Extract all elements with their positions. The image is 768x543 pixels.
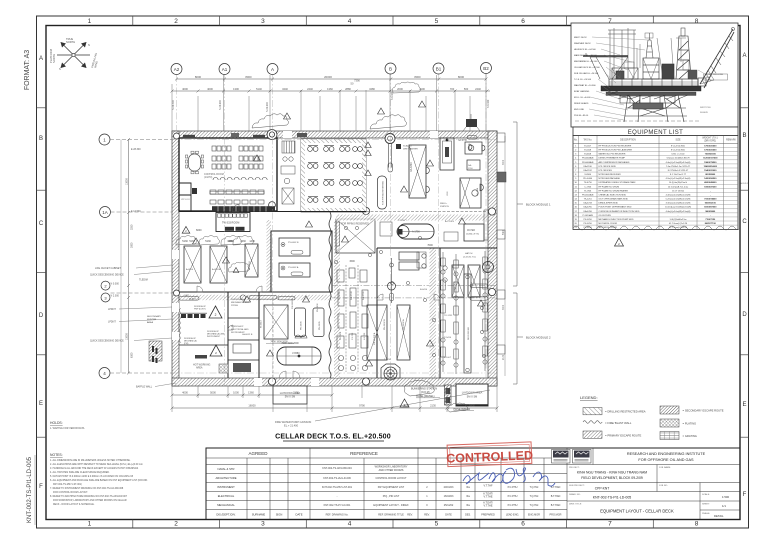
svg-text:KNT-002-TS-IA2-LD-006: KNT-002-TS-IA2-LD-006 [323, 477, 351, 480]
svg-text:8: 8 [695, 521, 699, 528]
svg-text:POUR POINT DEPRESSANT SKID: POUR POINT DEPRESSANT SKID [599, 206, 632, 209]
svg-text:PK-6-860: PK-6-860 [583, 178, 593, 180]
svg-text:4000: 4000 [207, 87, 213, 91]
svg-text:WATER INJ. PIG RECEIVER: WATER INJ. PIG RECEIVER [599, 153, 626, 156]
svg-text:NITROGEN RECEIVER: NITROGEN RECEIVER [599, 174, 622, 176]
revision rows middle [424, 485, 561, 517]
laydown area protrusion bottom [273, 386, 307, 404]
svg-text:TEMP. DRILLING: TEMP. DRILLING [706, 74, 723, 76]
right small dim line [504, 136, 506, 376]
vip loo dark cabinet [192, 188, 197, 194]
misc valve circles along alleys [334, 226, 485, 357]
svg-text:71000/74500: 71000/74500 [704, 198, 717, 201]
big x-rect W-6613 [264, 305, 288, 339]
svg-text:41.7.2mm(L)7x1.2E: 41.7.2mm(L)7x1.2E [669, 227, 688, 229]
svg-text:5m(L)x2.5m(W)x3.85mH: 5m(L)x2.5m(W)x3.85mH [667, 158, 690, 160]
svg-text:A: A [742, 53, 746, 59]
sea level dashes [575, 120, 700, 122]
svg-text:3: 3 [261, 521, 265, 528]
svg-text:7000: 7000 [427, 244, 433, 247]
svg-text:15400/214000: 15400/214000 [704, 165, 718, 168]
grid bubble A1 [219, 64, 230, 75]
svg-text:CORROSION INHIBITOR INJECTION: CORROSION INHIBITOR INJECTION SKID [599, 211, 640, 213]
svg-text:ELECTRICAL AND: ELECTRICAL AND [231, 328, 249, 331]
mid-left equipment A-6611B [210, 246, 227, 283]
svg-text:DES.: DES. [465, 514, 471, 517]
svg-text:FIRE WATER PUMP CAISSON: FIRE WATER PUMP CAISSON [275, 420, 311, 424]
horizontal centerlines right section [332, 284, 497, 286]
svg-text:13000: 13000 [126, 333, 129, 340]
scale drum washer [396, 144, 401, 149]
svg-text:2: 2 [174, 521, 178, 528]
svg-text:6300: 6300 [131, 352, 134, 358]
svg-text:MCC/MODL ROOM: MCC/MODL ROOM [599, 223, 618, 225]
svg-text:C-1766: C-1766 [352, 332, 354, 340]
workbench dark dash row [181, 314, 206, 318]
svg-text:4.2m(L)x2.9m(W)x2.3m(H): 4.2m(L)x2.9m(W)x2.3m(H) [666, 178, 691, 180]
svg-text:C: C [39, 221, 44, 227]
svg-text:WATER: WATER [467, 229, 475, 232]
svg-text:BLOCK MODULE 2: BLOCK MODULE 2 [526, 336, 551, 340]
svg-text:LAYDOWN AREA: LAYDOWN AREA [462, 391, 483, 395]
svg-text:N: N [88, 43, 90, 47]
svg-text:IFa: IFa [466, 495, 470, 498]
door arcs along walls [197, 205, 440, 379]
cloud scallop along table bottom [573, 226, 740, 230]
svg-text:500: 500 [464, 87, 469, 91]
svg-text:F: F [743, 492, 747, 498]
corridor locker dark band [212, 206, 275, 211]
revision cloud above plan right [370, 115, 407, 129]
svg-text:CHEMICAL INJECTION SKID: CHEMICAL INJECTION SKID [599, 193, 627, 196]
big triangle 2 lower [210, 345, 222, 356]
grid bubble 4 [99, 368, 110, 379]
svg-text:N 28.400: N 28.400 [172, 100, 175, 110]
svg-text:PRO.MGR: PRO.MGR [550, 514, 562, 517]
svg-text:PK-6501A/B: PK-6501A/B [582, 193, 594, 196]
svg-text:DA-: DA- [468, 164, 472, 167]
grid bubble B2 [481, 63, 492, 74]
svg-text:MECHANICAL AND: MECHANICAL AND [231, 301, 250, 304]
svg-text:PIQ., PID LIST: PIQ., PID LIST [383, 495, 400, 498]
svg-text:A-1790: A-1790 [412, 231, 420, 234]
legend fire blast wall [583, 421, 602, 424]
svg-text:MUD LINE: MUD LINE [574, 109, 585, 111]
mid-left PK-6664 x-box [245, 244, 258, 277]
jacket legs below deck [624, 95, 687, 122]
svg-text:HP FLARE KO DRUM HEATER: HP FLARE KO DRUM HEATER [599, 189, 629, 192]
svg-text:AGREED: AGREED [248, 451, 268, 456]
svg-text:15400/21000: 15400/21000 [704, 169, 717, 172]
top dim numbers [182, 79, 481, 91]
svg-text:5: 5 [435, 18, 439, 25]
deck outer wall top [172, 131, 497, 138]
svg-text:112000/117500: 112000/117500 [703, 158, 718, 160]
svg-text:E-1007: E-1007 [584, 146, 592, 148]
reference column content [322, 466, 413, 517]
svg-text:3000: 3000 [503, 159, 505, 165]
heater boxes [399, 252, 419, 260]
svg-text:WALKWAY EL.+16.800: WALKWAY EL.+16.800 [574, 84, 596, 87]
svg-text:14200/90500: 14200/90500 [704, 177, 717, 180]
svg-text:= PLATING: = PLATING [683, 422, 697, 426]
grid bubble B [385, 63, 396, 74]
legend secondary escape route [660, 406, 679, 414]
svg-text:MECHANICAL AND: MECHANICAL AND [207, 333, 225, 336]
mid-left equipment A-6614 [184, 246, 201, 283]
grid B column circle with riser pipe [385, 134, 395, 144]
svg-text:8. REFER TO ARCHITECTURE DRAWI: 8. REFER TO ARCHITECTURE DRAWING NO.KNT-… [50, 495, 128, 498]
svg-text:FOR PIPING RESERVED: FOR PIPING RESERVED [341, 223, 369, 226]
compass rose [57, 43, 90, 68]
svg-text:E: E [742, 402, 746, 408]
svg-text:8000: 8000 [245, 75, 252, 79]
svg-text:SECONDARY: SECONDARY [147, 315, 161, 318]
svg-text:5. DATUM POINT IS 0.000mm AND: 5. DATUM POINT IS 0.000mm AND E 0.000mm … [50, 475, 134, 478]
svg-text:Y-1700 ?: Y-1700 ? [398, 220, 407, 222]
wall door openings [172, 131, 438, 386]
svg-text:1300: 1300 [233, 87, 239, 91]
svg-text:FOR CONTROL ROOM LAYOUT.: FOR CONTROL ROOM LAYOUT. [53, 491, 88, 494]
svg-text:QUICK DESCENDING DEVICE: QUICK DESCENDING DEVICE [90, 340, 124, 343]
control room meeting table [189, 154, 201, 171]
svg-text:ELECTRICAL: ELECTRICAL [218, 494, 235, 498]
rotated elevation labels near top extension lines [172, 91, 490, 112]
svg-text:P-5410: P-5410 [444, 337, 452, 339]
svg-text:PREPARED: PREPARED [481, 514, 495, 517]
svg-text:(14270): (14270) [204, 176, 212, 179]
svg-text:A1: A1 [222, 67, 228, 72]
jack-up rig approach note [655, 47, 658, 55]
dotted grid block [219, 364, 228, 373]
svg-text:N 26.600: N 26.600 [266, 102, 269, 112]
svg-text:B-6410: B-6410 [420, 289, 428, 291]
svg-text:A-6614: A-6614 [186, 268, 194, 271]
bottom dimension lines [172, 386, 497, 412]
svg-text:SHEET:: SHEET: [702, 504, 710, 506]
svg-text:AIR COMPRESSOR PACKAGES: AIR COMPRESSOR PACKAGES [599, 161, 631, 164]
svg-text:DA-6765: DA-6765 [584, 206, 593, 209]
svg-text:B: B [742, 133, 746, 139]
svg-text:6. ALL EQUIPMENT AND PACKAGE S: 6. ALL EQUIPMENT AND PACKAGE SIZE ARE BA… [50, 479, 148, 482]
svg-text:PK-6604A/B: PK-6604A/B [582, 161, 594, 164]
svg-text:T.O.S. EL.+20.500: T.O.S. EL.+20.500 [574, 79, 592, 81]
svg-text:VIP LOO: VIP LOO [181, 199, 190, 201]
svg-text:DA-3512: DA-3512 [584, 169, 593, 172]
svg-text:700: 700 [450, 87, 455, 91]
elevation leader labels left [574, 37, 601, 117]
right side brackets [513, 122, 523, 286]
svg-text:DRW. TITLE:: DRW. TITLE: [569, 504, 582, 506]
svg-text:17500/21500: 17500/21500 [704, 150, 717, 152]
svg-text:3440: 3440 [282, 87, 288, 91]
svg-text:B: B [39, 136, 43, 142]
svg-text:2880: 2880 [345, 87, 351, 91]
DA-1760 box [467, 160, 480, 170]
svg-text:P-5410A/B: P-5410A/B [583, 214, 594, 217]
svg-text:4.4m(L)x2.9m(W)x3.2m(H): 4.4m(L)x2.9m(W)x3.2m(H) [666, 162, 691, 164]
svg-text:10 2.0m(L)B.Tx1.2 (L): 10 2.0m(L)B.Tx1.2 (L) [668, 186, 689, 188]
svg-text:HOLDS:: HOLDS: [50, 421, 63, 425]
svg-text:REFERENCE: REFERENCE [350, 451, 378, 456]
svg-text:5000: 5000 [210, 391, 216, 395]
svg-text:IFa: IFa [466, 486, 470, 489]
svg-text:7. REFER TO INSTRUMENT DRAWING: 7. REFER TO INSTRUMENT DRAWING NO.KNT-00… [50, 487, 124, 490]
vertical escape hatch band [334, 221, 340, 379]
svg-text:TAG No.: TAG No. [583, 139, 592, 142]
small derrick / flare left [646, 33, 653, 58]
small stairs right of wall [497, 133, 506, 354]
svg-text:10.2m(L)x2.5m(W)x0.5m(H): 10.2m(L)x2.5m(W)x0.5m(H) [665, 207, 691, 209]
left section row labels [215, 467, 302, 517]
cloud around 2000-4100 dims [392, 82, 420, 93]
svg-text:= SECONDARY ESCAPE ROUTE: = SECONDARY ESCAPE ROUTE [683, 409, 724, 413]
svg-text:P.C.PHU: P.C.PHU [508, 495, 518, 498]
svg-text:HP PRODUCTION PIG RECEIVER: HP PRODUCTION PIG RECEIVER [599, 146, 632, 148]
firewater pump x-box B [397, 305, 410, 360]
svg-text:N 2.000: N 2.000 [111, 295, 120, 298]
horizontal wall y292 left part [179, 291, 332, 293]
elevation extra clutter [609, 33, 714, 84]
svg-text:B.T.HAN: B.T.HAN [551, 486, 561, 489]
controlled stamp [446, 442, 534, 467]
svg-text:= DRILLING RESTRICTED AREA: = DRILLING RESTRICTED AREA [605, 410, 646, 414]
svg-text:TK-1251: TK-1251 [584, 199, 593, 201]
legend plating [660, 419, 679, 427]
svg-text:SCALED: SCALED [403, 145, 412, 148]
skid box top with dark dot [440, 138, 454, 170]
svg-text:1: 1 [88, 18, 92, 25]
row letters right [742, 53, 747, 498]
svg-text:DA-3510: DA-3510 [584, 165, 593, 168]
svg-text:1:500: 1:500 [722, 495, 729, 499]
grid bubble A2 [171, 64, 182, 75]
svg-text:A: A [39, 56, 43, 62]
svg-text:D: D [39, 313, 44, 319]
svg-text:HELIDECK EL.+44.500: HELIDECK EL.+44.500 [574, 49, 597, 51]
elevation small right labels [700, 107, 711, 114]
svg-text:13000: 13000 [126, 178, 129, 185]
left dim vertical lines [128, 140, 130, 374]
grid band column ticks bottom [133, 520, 654, 529]
pump D attachments on DA-6790 [426, 167, 429, 174]
big triangle 2 upper [209, 306, 222, 318]
extra small skid rects right-mid area [336, 210, 488, 268]
svg-text:MEZZ. DECK: MEZZ. DECK [574, 37, 587, 39]
svg-text:B.T.HAN: B.T.HAN [551, 504, 561, 507]
svg-text:P.C.PHU: P.C.PHU [508, 486, 518, 489]
svg-text:A: A [271, 67, 274, 72]
svg-text:KNT-002-TS-PI1-LD-005: KNT-002-TS-PI1-LD-005 [593, 496, 632, 500]
svg-text:DA-6743: DA-6743 [584, 202, 593, 205]
svg-text:TK-6750: TK-6750 [584, 182, 593, 184]
svg-text:JOB NO:: JOB NO: [659, 485, 668, 487]
svg-text:N 0.000: N 0.000 [111, 283, 120, 286]
svg-text:BAFFLE WALL: BAFFLE WALL [136, 386, 153, 389]
svg-text:8000: 8000 [195, 75, 202, 79]
svg-text:8"x1.2m/0.8mD: 8"x1.2m/0.8mD [671, 146, 686, 148]
svg-text:41.7.2mm(L)7x1.2E: 41.7.2mm(L)7x1.2E [669, 223, 688, 225]
svg-text:6: 6 [521, 521, 525, 528]
svg-text:KNT-002-TS-AK9-DW-004: KNT-002-TS-AK9-DW-004 [322, 467, 352, 470]
svg-text:B1: B1 [436, 67, 442, 72]
svg-text:C-1766: C-1766 [584, 186, 592, 188]
svg-text:NORTH: NORTH [66, 40, 75, 44]
vertical equipment chains right section [441, 251, 487, 374]
svg-text:GRIT: GRIT [184, 295, 190, 297]
svg-text:(2.4mX2.7m): (2.4mX2.7m) [463, 257, 476, 259]
svg-text:4000: 4000 [182, 391, 188, 395]
temp drilling rig box [704, 74, 728, 80]
svg-text:(PM): (PM) [184, 343, 189, 345]
svg-text:AREA: AREA [147, 321, 153, 324]
svg-text:HOSE-(DIESEL): HOSE-(DIESEL) [416, 395, 435, 398]
blue signatures [463, 468, 555, 486]
svg-text:B2: B2 [483, 66, 489, 71]
equipment labels scatter [184, 220, 476, 361]
svg-text:HATCH: HATCH [465, 252, 473, 255]
svg-text:9800/9900: 9800/9900 [705, 211, 716, 213]
svg-text:5140: 5140 [256, 87, 262, 91]
svg-text:C: C [742, 219, 747, 225]
svg-text:E-0008: E-0008 [584, 154, 592, 156]
svg-text:DESCRIPTION: DESCRIPTION [620, 140, 636, 142]
grid band row ticks left/right [37, 108, 749, 437]
svg-text:16/04/03: 16/04/03 [444, 495, 454, 498]
svg-text:= GRATING: = GRATING [683, 434, 697, 438]
svg-text:REV.: REV. [407, 514, 413, 517]
svg-text:B: B [389, 67, 392, 72]
svg-text:BLAST: BLAST [189, 298, 197, 301]
company section lines [567, 448, 740, 520]
capsule frame PN-6605 [313, 308, 324, 337]
control room walls [179, 138, 277, 211]
svg-text:PK-6605A/B: PK-6605A/B [582, 157, 594, 160]
horizontal pipe capsules to right wall [470, 284, 488, 288]
svg-text:No.: No. [574, 140, 578, 142]
svg-text:NORTH: NORTH [52, 54, 56, 63]
vertical wall x440 [439, 248, 441, 378]
svg-text:KNT-002-TS-PY-LD-001: KNT-002-TS-PY-LD-001 [324, 504, 351, 507]
svg-text:16000: 16000 [248, 404, 256, 408]
svg-text:SIGN: SIGN [276, 513, 283, 517]
svg-text:D: D [742, 312, 747, 318]
vertical wall x377 [376, 248, 378, 378]
svg-text:7400 1900 2000: 7400 1900 2000 [281, 342, 299, 345]
control room console desk rows [212, 146, 263, 169]
top dimension line row1 [172, 90, 490, 92]
svg-text:MUSTER: MUSTER [147, 319, 157, 321]
revision triangle below table [615, 238, 624, 246]
svg-text:8"x1.2m/0.8mD: 8"x1.2m/0.8mD [671, 150, 686, 152]
svg-text:1430: 1430 [240, 240, 246, 243]
svg-text:8.1 11x2.5m/1.7T: 8.1 11x2.5m/1.7T [670, 174, 687, 176]
svg-text:3250: 3250 [131, 224, 134, 230]
svg-text:2130: 2130 [503, 354, 505, 360]
svg-text:6.8m x 1.5mD: 6.8m x 1.5mD [672, 154, 685, 156]
svg-text:A-1700 E: A-1700 E [445, 220, 455, 223]
vertical escape hatch band center-left [267, 220, 272, 292]
svg-text:SA-6936: SA-6936 [453, 281, 456, 290]
svg-text:TLEDIM: TLEDIM [139, 279, 148, 282]
svg-text:HOSE-WATER: HOSE-WATER [454, 408, 471, 411]
svg-text:DIS./DEPT./DIV.: DIS./DEPT./DIV. [216, 513, 236, 517]
svg-text:KNT-002-TS-MS7-LST-001: KNT-002-TS-MS7-LST-001 [322, 486, 353, 489]
center room PK-6663 boxes [279, 238, 310, 256]
svg-text:HOLD 1: HOLD 1 [741, 183, 750, 185]
svg-text:NOTES:: NOTES: [50, 453, 63, 457]
svg-text:PMP (DUST): PMP (DUST) [194, 309, 206, 311]
control room chairs arc row [213, 177, 267, 180]
svg-text:T.Q.HAI: T.Q.HAI [530, 486, 539, 489]
svg-text:A2: A2 [174, 67, 180, 72]
svg-text:DIESEL FIREWATER PUMP: DIESEL FIREWATER PUMP [599, 157, 626, 160]
svg-text:6: 6 [521, 18, 525, 25]
grid bubble 3 [101, 293, 110, 302]
svg-text:4.4m(L)x2.0m(W)x1.0m(H): 4.4m(L)x2.0m(W)x1.0m(H) [666, 194, 691, 196]
svg-text:CELLAR DECK T.O.S. EL.+20.500: CELLAR DECK T.O.S. EL.+20.500 [275, 433, 391, 441]
svg-text:2440: 2440 [307, 87, 313, 91]
control room vip room partition [179, 183, 191, 211]
svg-text:17500/21500: 17500/21500 [704, 146, 717, 148]
svg-text:2. ALL ELEVATIONS ARE WITH RES: 2. ALL ELEVATIONS ARE WITH RESPECT TO ME… [50, 463, 143, 466]
svg-text:CELLAR DECK EL.+28.500: CELLAR DECK EL.+28.500 [574, 66, 601, 69]
svg-text:1A: 1A [102, 210, 108, 215]
dark equipment above top wall right [466, 119, 477, 127]
left edge triangles near wellbay [365, 142, 371, 176]
svg-text:51000/57000: 51000/57000 [704, 207, 717, 209]
svg-text:REF. DRAWING TITLE: REF. DRAWING TITLE [378, 514, 404, 517]
equipment DA-6790 x-box [409, 145, 426, 198]
svg-text:T-6706: T-6706 [384, 359, 392, 361]
svg-text:V.T.THE: V.T.THE [483, 496, 492, 499]
table header row [573, 143, 738, 145]
pipe capsule row above rooms [179, 295, 295, 300]
svg-text:REF. DRAWING No.: REF. DRAWING No. [326, 514, 349, 517]
horizontal escape hatch band left [179, 295, 332, 300]
svg-text:BLOCK MODULE 1: BLOCK MODULE 1 [526, 203, 551, 207]
legend primary escape route [583, 431, 602, 438]
svg-text:KINH NGU TRANG - KINH NGU TRAN: KINH NGU TRANG - KINH NGU TRANG NAM [577, 471, 647, 475]
svg-text:1. WAITING FOR VEDOR DATA: 1. WAITING FOR VEDOR DATA [50, 427, 85, 430]
svg-text:40200/49000: 40200/49000 [704, 181, 717, 184]
svg-text:PN-6602 A: PN-6602 A [402, 319, 405, 330]
svg-text:8.2 P500x0.5 5225.4T: 8.2 P500x0.5 5225.4T [668, 170, 689, 172]
column numbers top [88, 18, 699, 25]
svg-text:1: 1 [88, 521, 92, 528]
control room desk row lower [210, 190, 264, 204]
svg-text:9790: 9790 [359, 404, 365, 408]
svg-text:LEGEND:: LEGEND: [580, 395, 598, 400]
svg-text:MEZZANINE EL.+31.500: MEZZANINE EL.+31.500 [574, 60, 598, 63]
grid bubble B1 [433, 63, 444, 74]
svg-text:5: 5 [435, 521, 439, 528]
svg-text:7150/7150: 7150/7150 [705, 219, 716, 221]
svg-text:E-1008: E-1008 [584, 150, 592, 152]
svg-text:1/1: 1/1 [722, 504, 726, 508]
svg-text:LP3 OFFICES: LP3 OFFICES [599, 170, 613, 172]
svg-text:LPDNT: LPDNT [108, 321, 116, 324]
ladder strip between control room and wellbay [281, 141, 295, 204]
tall narrow rect FW piping [464, 274, 471, 373]
top dim ticks [171, 90, 489, 93]
svg-text:DETAIL: DETAIL [714, 514, 724, 518]
svg-text:EQUIPMENT LAYOUT - CELLAR DECK: EQUIPMENT LAYOUT - CELLAR DECK [600, 509, 674, 514]
svg-text:SCALE:: SCALE: [702, 493, 710, 496]
svg-text:AND OTHER ROOMS: AND OTHER ROOMS [379, 469, 404, 472]
svg-text:SIZE: SIZE [675, 140, 681, 142]
scattered revision triangles in plan [193, 101, 485, 366]
